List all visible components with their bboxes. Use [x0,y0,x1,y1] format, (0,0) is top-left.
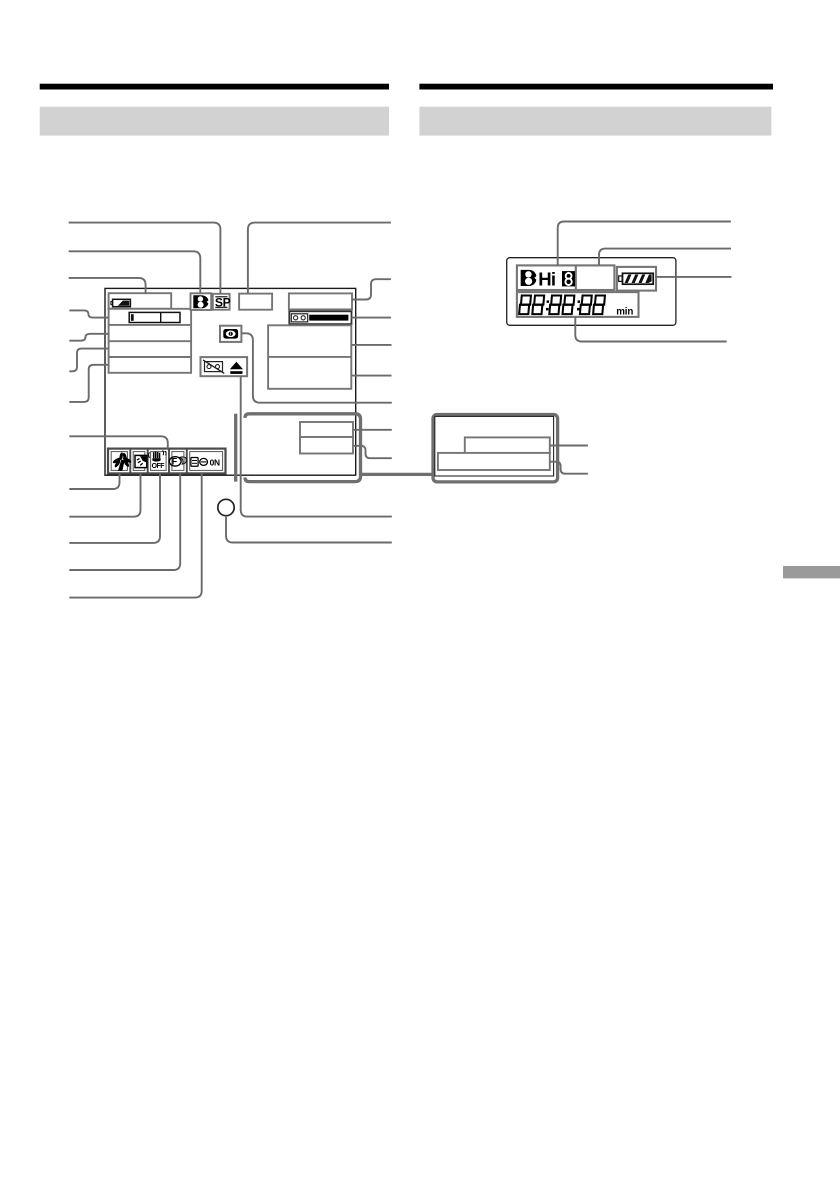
no-cassette slash icon [203,360,224,374]
eject indicator box [201,357,248,376]
wire from recording mode box to top right [248,223,391,294]
wire from mirror box [241,333,391,402]
wire from display counter [575,317,726,342]
Hi8 logo in display window [521,269,575,290]
battery icon [111,299,130,306]
wire to icon strip [69,436,168,448]
wire from display battery [656,276,732,278]
two-row status box [268,325,351,389]
program AE palm tree icon [112,452,132,471]
SP mode box [213,294,231,310]
wire to steadyshot icon [69,473,160,543]
wire to fader icon [69,473,180,570]
wire from format logo [558,222,731,266]
section title band right [419,107,771,136]
LCD screen outline [105,288,356,475]
battery indicator box [109,293,172,309]
wire to Hi8 mark box [69,251,201,293]
steadyshot off icon [149,450,166,470]
time box right [438,453,550,470]
display window battery box [617,267,656,291]
wire from right time box [550,462,588,474]
wire to start-stop icon [69,473,201,597]
display window battery icon [619,273,654,284]
magnifier box left [236,414,361,482]
date box right [465,437,550,453]
Hi8 format mark glyph [193,295,209,308]
date box [300,422,353,437]
mirror mode eye icon [223,329,238,339]
start-stop mode icon [191,457,220,467]
display window counter box [517,292,639,317]
fader icon [169,457,187,467]
wire to row 2 [69,334,108,341]
cassette icon [291,314,307,322]
section title band left [40,107,389,136]
wire from tape counter [352,317,391,319]
header rule right [419,84,773,90]
wire from status box [352,279,391,299]
wire to palm icon [69,473,119,489]
circle marker [218,499,234,515]
wire to battery box [69,278,146,293]
recording mode empty box [239,294,272,310]
connector bar between magnifier boxes [361,473,434,476]
wire to row 3 [69,349,108,372]
wire to SP box [69,223,221,294]
seven segment counter 88:88:88 min [519,296,633,318]
tape remaining gauge [129,312,180,322]
status empty box top right [289,293,352,309]
backlight icon [135,455,147,467]
wire from time box [353,446,392,458]
wire from two-row box row 2 [351,375,391,377]
time box [300,437,353,454]
wire from date box [353,429,392,431]
magnifier box right [433,415,558,482]
tape counter black bar [309,315,348,321]
wire from right date box [550,445,588,447]
wire to row 4 [69,365,108,402]
svg-text:Hi: Hi [538,269,555,290]
indicator rows box [109,309,192,373]
svg-text:OFF: OFF [152,463,165,470]
svg-text:F: F [172,457,178,467]
wire to backlight icon [69,473,140,516]
display window outline [507,258,676,326]
eject symbol [230,362,243,374]
header rule left [40,84,389,90]
wire from two-row box row 1 [351,344,391,346]
Hi8 format mark box [191,293,212,310]
indicator icon strip box [108,449,226,474]
wire from circle marker [226,516,392,543]
svg-text:0N: 0N [210,457,220,467]
mirror mode box [220,326,241,342]
wire from eject box [241,376,392,516]
svg-text:min: min [616,307,633,318]
tape counter box [289,311,351,324]
display window format box [517,265,615,290]
wire from format empty box [599,249,731,266]
page tab right edge [783,566,840,578]
wire to gauge row [69,310,108,317]
